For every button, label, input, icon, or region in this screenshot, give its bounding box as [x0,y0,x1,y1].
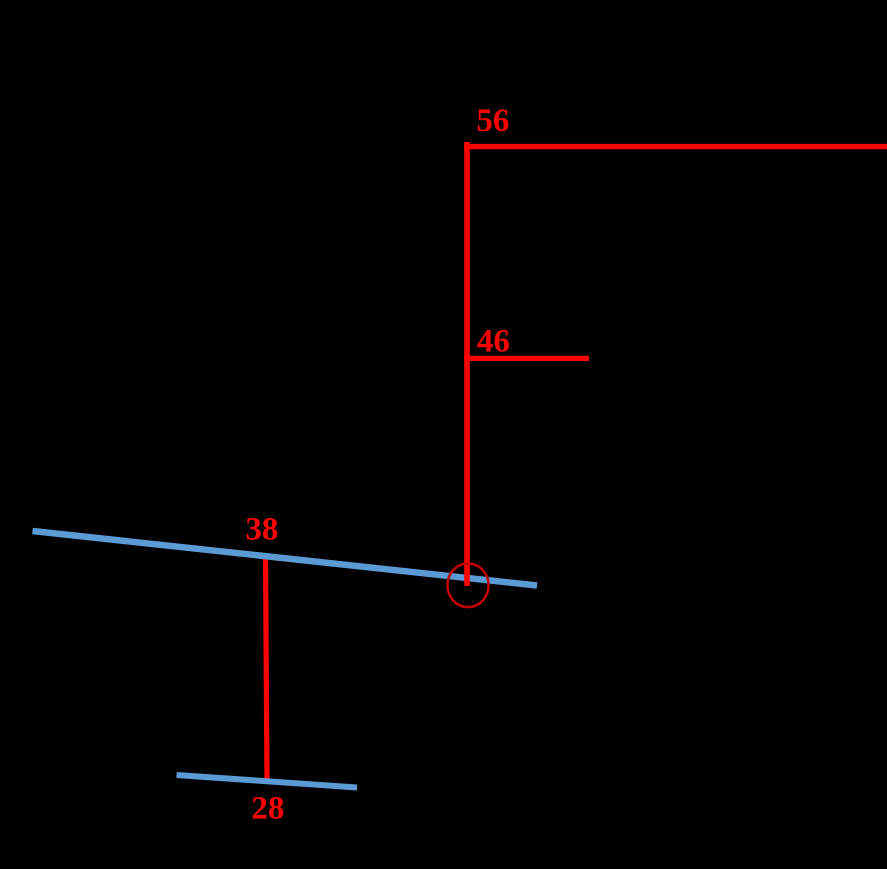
node: red circle marker [447,564,488,608]
svg-text:38: 38 [245,512,278,548]
wire: short blue inclined line (lower) [177,775,358,788]
wire: long blue inclined line (upper) [33,531,538,586]
svg-text:56: 56 [476,103,509,139]
wire: vertical red line from 56 down to circle [464,142,470,586]
wire: vertical red line from 38 down to 28 [266,557,268,783]
wire: middle horizontal red line (46 bar) [464,356,589,361]
svg-text:28: 28 [251,790,284,826]
svg-text:46: 46 [477,323,510,359]
wire: top horizontal red line (56 bar) [464,144,887,149]
